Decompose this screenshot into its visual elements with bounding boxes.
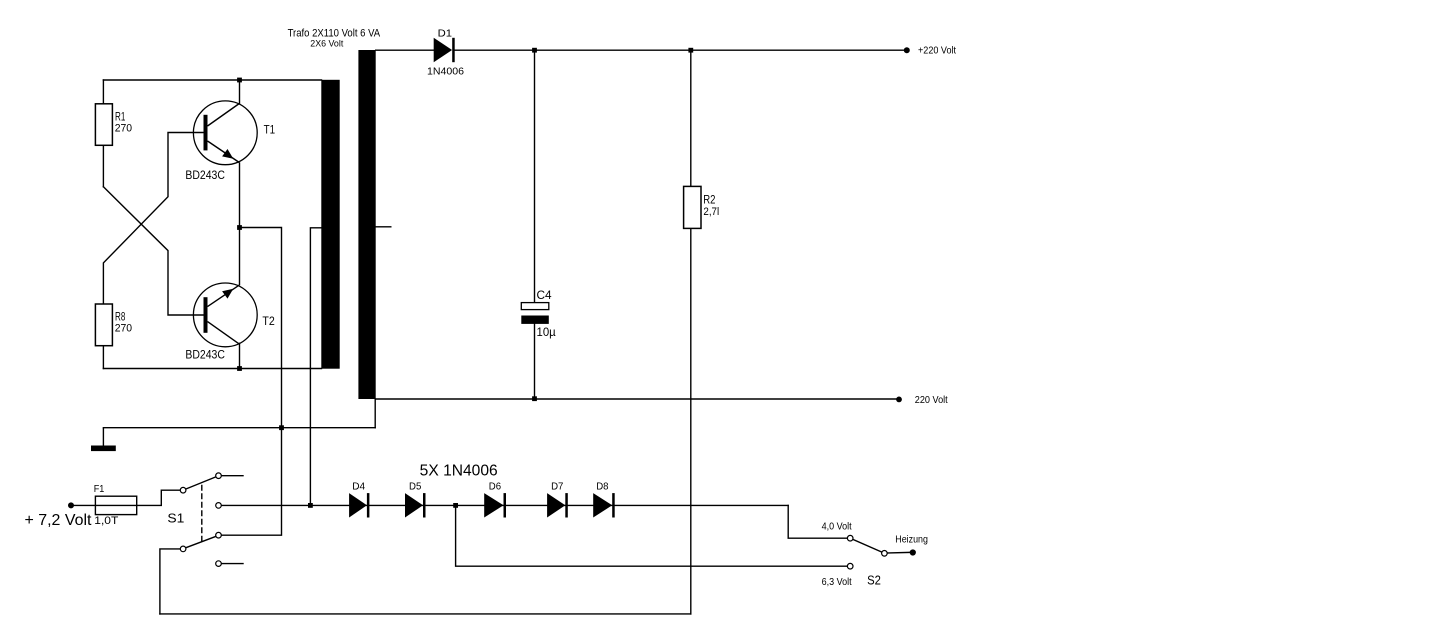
node T2 collector junction	[237, 366, 242, 371]
node C4 bottom junction	[532, 396, 537, 401]
wire S1 pole2 to bottom rail	[160, 549, 180, 614]
wire bottom rail	[160, 613, 691, 615]
svg-text:R1: R1	[115, 111, 125, 123]
switch S1 contact d	[216, 561, 222, 567]
wire ground bus	[103, 427, 375, 429]
terminal 220 Volt	[896, 397, 902, 403]
wire S1 contact a stub	[221, 475, 243, 477]
switch S1 contact a	[216, 473, 222, 479]
svg-text:D1: D1	[438, 27, 453, 39]
svg-text:2X6 Volt: 2X6 Volt	[310, 38, 343, 48]
wire C4 bottom lead	[534, 324, 536, 399]
svg-text:1,0T: 1,0T	[94, 515, 118, 527]
wire bottom rail primary	[103, 368, 321, 370]
wire secondary bottom to ground bus	[374, 399, 376, 428]
svg-text:BD243C: BD243C	[185, 350, 225, 362]
transistor T1	[193, 101, 257, 165]
transformer secondary winding bar	[358, 50, 375, 399]
wire primary center tap	[310, 228, 321, 506]
svg-text:D6: D6	[489, 481, 501, 493]
svg-text:6,3 Volt: 6,3 Volt	[822, 576, 852, 588]
svg-text:T1: T1	[264, 125, 276, 137]
ground	[91, 428, 116, 451]
svg-text:D7: D7	[551, 481, 563, 493]
diode D5	[405, 493, 426, 517]
node center tap junction	[308, 503, 313, 508]
svg-text:S2: S2	[867, 572, 881, 587]
switch S2 lever	[853, 539, 883, 552]
wire S2 pole to Heizung terminal	[887, 551, 910, 554]
node ground junction	[279, 425, 284, 430]
wire R2 top lead	[690, 50, 692, 186]
wire R8 bottom lead	[102, 346, 104, 369]
diode D4	[349, 493, 369, 517]
svg-text:270: 270	[115, 123, 132, 135]
switch S2 contact 6,3V	[847, 563, 853, 569]
svg-text:F1: F1	[94, 484, 105, 495]
svg-text:R8: R8	[115, 312, 125, 324]
transformer primary winding bar	[321, 80, 339, 369]
wire input +7,2V through fuse to S1	[71, 490, 180, 505]
wire secondary center stub	[376, 226, 391, 228]
switch S1 contact c	[216, 532, 222, 538]
svg-text:2,7l: 2,7l	[703, 206, 719, 218]
wire top rail	[103, 79, 321, 81]
wire T2 collector lead	[239, 343, 241, 368]
wire R1 top lead	[102, 80, 104, 104]
wire heater bus diode row	[221, 504, 788, 506]
switch S1 pole 2 lever	[186, 536, 217, 548]
transistor T2	[193, 283, 257, 347]
terminal +220 Volt	[904, 47, 910, 53]
wire T2 emitter lead	[239, 228, 241, 285]
diode D6	[484, 493, 506, 517]
svg-text:T2: T2	[262, 316, 274, 328]
wire cross-coupling R1 to T2 base	[103, 187, 203, 315]
resistor R2	[684, 186, 701, 228]
wire 220V rail	[376, 398, 899, 400]
node 6,3V tap junction	[453, 503, 458, 508]
svg-text:220 Volt: 220 Volt	[915, 395, 948, 406]
wire S1 contact c to ground junction	[221, 428, 281, 536]
wire 4,0V branch	[788, 505, 847, 538]
switch S1 pole 1 lever	[186, 477, 217, 489]
svg-text:+220 Volt: +220 Volt	[918, 45, 956, 56]
svg-text:4,0 Volt: 4,0 Volt	[822, 521, 852, 533]
switch S2 contact 4,0V	[847, 535, 853, 541]
wire R2 bottom lead to bottom rail	[690, 228, 692, 614]
wire T1 emitter lead	[239, 163, 241, 228]
svg-text:R2: R2	[703, 195, 715, 207]
svg-text:270: 270	[115, 323, 132, 335]
wire S1 contact d stub	[221, 563, 243, 565]
wire emitter junction to ground bus	[240, 228, 282, 428]
svg-text:D8: D8	[596, 481, 608, 493]
diode D7	[547, 493, 568, 517]
capacitor C4	[521, 303, 549, 324]
terminal Heizung	[910, 549, 916, 555]
node C4 top junction	[532, 48, 537, 53]
svg-text:D5: D5	[409, 481, 421, 493]
resistor R1	[95, 104, 112, 146]
node T1 collector junction	[237, 78, 242, 83]
diode D1	[434, 38, 455, 62]
switch S1 linkage dashed	[201, 486, 203, 544]
wire T1 collector lead	[239, 80, 241, 104]
svg-text:BD243C: BD243C	[185, 170, 225, 182]
node R2 top junction	[688, 48, 693, 53]
wire C4 top lead	[534, 50, 536, 302]
wire secondary top to D1	[376, 49, 434, 51]
svg-text:+ 7,2 Volt: + 7,2 Volt	[25, 512, 93, 529]
node emitter junction	[237, 225, 242, 230]
svg-text:5X 1N4006: 5X 1N4006	[420, 462, 498, 479]
switch S1 pole 2 pivot	[180, 546, 186, 552]
svg-text:1N4006: 1N4006	[427, 66, 464, 78]
terminal +7,2 Volt	[68, 502, 74, 508]
svg-text:D4: D4	[352, 481, 365, 493]
svg-text:C4: C4	[537, 290, 553, 302]
resistor R8	[95, 304, 112, 346]
svg-text:10µ: 10µ	[537, 327, 557, 339]
wire cross-coupling T1 base to R8	[103, 133, 203, 305]
wire 6,3V tap	[456, 505, 848, 566]
wire R1 bottom lead	[102, 145, 104, 187]
switch S1 pole 1 pivot	[180, 487, 186, 493]
switch S2 pole	[882, 551, 888, 557]
svg-text:Heizung: Heizung	[895, 533, 928, 545]
svg-text:S1: S1	[167, 510, 184, 525]
wire +220 rail	[455, 49, 907, 51]
switch S1 contact b	[216, 503, 222, 509]
diode D8	[593, 493, 615, 517]
fuse F1	[95, 496, 136, 514]
